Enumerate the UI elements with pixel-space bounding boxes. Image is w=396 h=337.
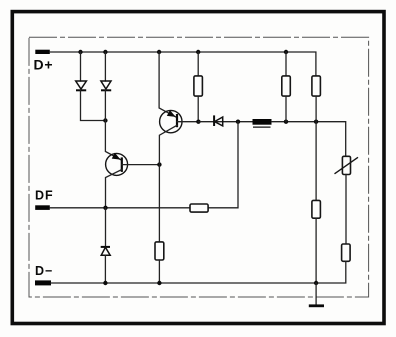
varistor RV1 bbox=[335, 156, 359, 174]
wire mid row left bbox=[198, 121, 252, 123]
svg-text:DF: DF bbox=[35, 189, 54, 203]
resistor R6 bbox=[155, 242, 164, 283]
node mid junction bbox=[236, 120, 240, 124]
diode D4 bbox=[214, 115, 223, 126]
wire D1 drop bbox=[80, 52, 82, 81]
inductor L1 bbox=[253, 119, 272, 127]
node D- D3 bbox=[103, 281, 107, 285]
node D- R6 bbox=[157, 281, 161, 285]
wire Q2 emitter from rail bbox=[159, 52, 176, 117]
wire RV1 to R8 bbox=[345, 175, 347, 245]
wire D2 drop bbox=[104, 52, 106, 81]
ground bbox=[309, 283, 324, 306]
node DF-Q1 bbox=[103, 206, 107, 210]
terminal D+ bbox=[34, 50, 54, 73]
wire Q1 base lead bbox=[122, 164, 160, 166]
node rail-R2 bbox=[196, 50, 200, 54]
node rail-Q2 bbox=[157, 50, 161, 54]
wire mid row right bbox=[272, 122, 346, 157]
resistor R3 bbox=[282, 52, 291, 122]
wire D1 to junction bbox=[81, 90, 106, 120]
node mid-R3 bbox=[284, 120, 288, 124]
resistor R2 bbox=[194, 52, 203, 122]
svg-text:D+: D+ bbox=[34, 56, 54, 72]
wire D2 to Q1 emitter bbox=[105, 90, 120, 159]
wire mid junction to R5 bbox=[208, 122, 238, 208]
diode D2 bbox=[101, 81, 111, 90]
diode D1 bbox=[76, 81, 87, 90]
terminal DF bbox=[35, 189, 54, 210]
wire D3 to D- line bbox=[104, 255, 106, 283]
node diode junction bbox=[103, 118, 107, 122]
node base-R2 junction bbox=[196, 120, 200, 124]
wire D- line bbox=[51, 282, 316, 284]
wire Q1 to D3 bbox=[105, 208, 107, 247]
resistor R5 bbox=[190, 204, 208, 212]
node D- ground bbox=[314, 281, 318, 285]
node Q1 base junction bbox=[157, 162, 161, 166]
svg-text:D−: D− bbox=[35, 264, 53, 278]
node rail-D2 bbox=[103, 50, 107, 54]
resistor R8 bbox=[316, 244, 350, 283]
node rail-R3 bbox=[284, 50, 288, 54]
wire D+ rail bbox=[50, 52, 316, 76]
resistor R4 bbox=[312, 76, 321, 200]
node mid-R4 bbox=[314, 120, 318, 124]
resistor R7 bbox=[312, 200, 321, 283]
transistor Q2 bbox=[159, 110, 182, 242]
terminal D- bbox=[35, 264, 53, 285]
node rail-D1 bbox=[78, 50, 82, 54]
wire DF line bbox=[50, 207, 190, 209]
diode D3 bbox=[101, 247, 111, 255]
transistor Q1 bbox=[106, 153, 128, 208]
wire Q2 base lead bbox=[177, 121, 198, 123]
